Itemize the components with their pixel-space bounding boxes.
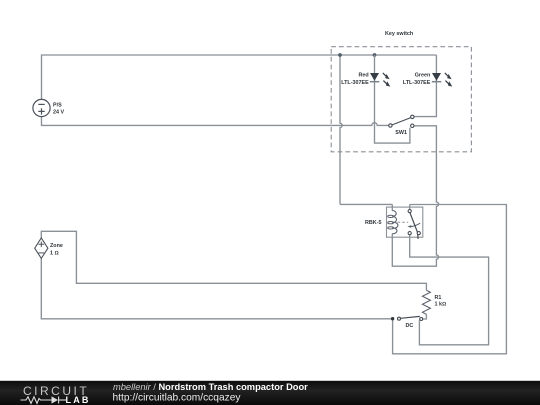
relay actuation dashed link	[398, 221, 409, 223]
wire top bus from P/S to green LED	[42, 55, 437, 99]
node DC pole junction dot	[391, 317, 394, 320]
svg-text:Key switch: Key switch	[385, 31, 413, 37]
svg-text:Zone: Zone	[50, 243, 63, 249]
wire key-switch left drop x=340.3 (hops over bottom bus)	[340, 55, 342, 204]
wire net-A horizontal y=204.2 to right loop down to DC pole	[340, 204, 506, 353]
svg-text:http://circuitlab.com/ccqazey: http://circuitlab.com/ccqazey	[113, 393, 242, 404]
key switch dashed enclosure	[331, 47, 471, 152]
svg-text:R1: R1	[435, 295, 442, 301]
svg-text:LAB: LAB	[66, 395, 91, 405]
relay RBK-5 body box	[387, 207, 423, 237]
wire SW1 bottom throw to relay coil bottom (two hops)	[392, 126, 438, 266]
LED D2 green triangle	[432, 73, 441, 81]
switch DC lever	[401, 316, 420, 318]
svg-text:Red: Red	[359, 72, 369, 78]
svg-text:P/S: P/S	[53, 102, 62, 108]
wire green LED branch down to SW1 top throw	[414, 55, 436, 117]
P/S minus sign	[38, 103, 44, 105]
wire R1 bottom to DC right contact	[423, 314, 427, 319]
switch SW1 bottom throw contact	[411, 124, 414, 127]
relay coil crossing loops	[388, 215, 394, 229]
switch DC right contact	[420, 318, 423, 321]
relay top contact pin	[409, 205, 411, 210]
wire red LED branch down to SW1 bottom throw	[375, 55, 410, 143]
LED D2 green emission arrows	[445, 73, 450, 85]
LED D1 red triangle	[370, 73, 379, 81]
relay bottom-right contact	[417, 232, 420, 235]
svg-text:SW1: SW1	[395, 130, 407, 136]
switch SW1 top throw contact	[411, 115, 414, 118]
wire relay NC contact to DC switch right contact via right loop	[410, 235, 489, 345]
relay top contact	[408, 210, 411, 213]
relay actuation arrow	[410, 223, 421, 226]
Zone source diamond	[35, 238, 48, 259]
LED D1 red emission arrows	[383, 73, 388, 85]
LED D2 green cathode bar	[432, 81, 442, 83]
relay coil loops	[392, 211, 398, 234]
svg-text:24 V: 24 V	[53, 110, 64, 116]
switch SW1 common contact	[389, 124, 392, 127]
CircuitLab logo resistor-diode glyph	[21, 397, 67, 404]
Zone minus sign	[39, 252, 45, 254]
svg-text:LTL-307EE: LTL-307EE	[341, 80, 369, 86]
svg-text:1 kΩ: 1 kΩ	[435, 302, 447, 308]
wire Zone top to R1 top	[41, 231, 426, 290]
svg-text:1 Ω: 1 Ω	[50, 250, 59, 256]
Zone plus sign	[39, 242, 45, 248]
switch DC left contact	[398, 317, 401, 320]
node junction dot at top bus x=374.5	[373, 53, 377, 57]
P/S plus sign	[38, 108, 44, 114]
wire Zone bottom to DC pole	[41, 258, 392, 319]
switch SW1 lever	[392, 118, 410, 125]
svg-text:DC: DC	[406, 323, 414, 329]
svg-text:Green: Green	[415, 72, 431, 78]
svg-text:RBK-5: RBK-5	[365, 220, 381, 226]
svg-text:mbellenir / Nordstrom Trash co: mbellenir / Nordstrom Trash compactor Do…	[113, 382, 308, 392]
wire bottom bus from P/S to SW1 common (hop over red LED wire)	[42, 117, 389, 126]
resistor R1 zigzag	[422, 290, 430, 314]
voltage source P/S circle	[33, 99, 50, 116]
node junction dot at top bus x=340.3	[338, 53, 342, 57]
LED D1 red cathode bar	[370, 81, 380, 83]
relay bottom-left contact	[408, 232, 411, 235]
relay armature lever	[410, 213, 418, 239]
svg-text:LTL-307EE: LTL-307EE	[403, 80, 431, 86]
relay coil top pin	[391, 204, 393, 210]
